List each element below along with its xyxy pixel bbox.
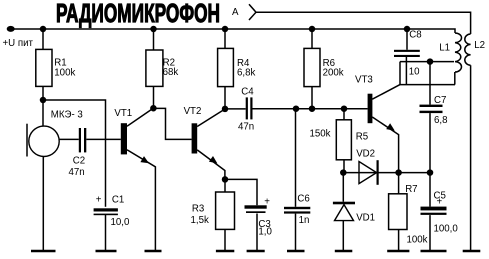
svg-text:+: + [96,195,102,206]
svg-text:C2: C2 [73,156,85,167]
svg-text:C1: C1 [112,194,124,205]
svg-text:150k: 150k [310,128,331,139]
svg-text:VD2: VD2 [356,149,375,160]
svg-text:+U пит: +U пит [3,38,34,49]
svg-text:10,0: 10,0 [111,217,130,228]
svg-text:6,8: 6,8 [434,115,447,126]
svg-text:А: А [232,7,239,18]
svg-text:100,0: 100,0 [434,223,459,234]
svg-text:VT1: VT1 [114,108,132,119]
svg-text:VT2: VT2 [184,106,202,117]
svg-text:10: 10 [409,66,420,77]
svg-text:100k: 100k [54,67,75,78]
svg-text:47n: 47n [238,122,254,133]
svg-text:L2: L2 [474,40,485,51]
svg-text:РАДИОМИКРОФОН: РАДИОМИКРОФОН [56,0,220,28]
svg-text:68k: 68k [163,67,179,78]
svg-text:1,0: 1,0 [258,227,272,238]
svg-text:6,8k: 6,8k [237,68,255,79]
svg-text:L1: L1 [439,42,450,53]
svg-text:47n: 47n [69,167,85,178]
svg-text:C4: C4 [241,87,254,98]
svg-text:VD1: VD1 [356,212,375,223]
svg-text:R5: R5 [356,131,368,142]
svg-text:C8: C8 [409,29,421,40]
svg-text:200k: 200k [323,68,344,79]
svg-text:+: + [264,196,270,207]
svg-text:R7: R7 [405,184,417,195]
svg-text:R3: R3 [192,204,204,215]
svg-text:C7: C7 [434,95,446,106]
svg-text:+: + [437,197,443,208]
svg-text:VT3: VT3 [355,74,373,85]
svg-text:1,5k: 1,5k [191,215,209,226]
svg-text:МКЭ- 3: МКЭ- 3 [51,110,83,121]
svg-text:1n: 1n [299,215,310,226]
svg-text:100k: 100k [407,235,428,246]
svg-text:C6: C6 [297,194,309,205]
